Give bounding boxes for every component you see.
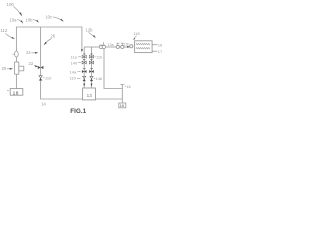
valve row2 left	[82, 60, 86, 64]
valve 22 bowtie on divider pipe	[38, 66, 44, 70]
check valve row4 right vertical bowtie	[90, 76, 93, 78]
flow arrowhead before HX	[127, 46, 130, 48]
svg-text:10b: 10b	[26, 17, 34, 22]
HX stub bottom right	[152, 49, 163, 54]
pump P1 rectangle	[15, 62, 19, 74]
label 24	[26, 50, 38, 55]
svg-text:15: 15	[120, 104, 124, 108]
node tee cap	[120, 85, 124, 89]
svg-text:110: 110	[70, 76, 77, 81]
label 118 above HX	[133, 31, 140, 40]
label 140	[71, 61, 82, 66]
label 20	[2, 66, 14, 71]
HX coil bottom	[136, 48, 150, 49]
wire line to HX	[124, 46, 130, 48]
svg-text:13a: 13a	[108, 43, 114, 47]
valve 11b row1 right	[89, 54, 93, 58]
svg-text:14a: 14a	[70, 69, 77, 74]
svg-text:100: 100	[7, 2, 15, 7]
svg-text:11b: 11b	[96, 54, 103, 59]
box 18	[10, 89, 23, 96]
svg-text:13b: 13b	[123, 43, 129, 47]
svg-text:16: 16	[158, 42, 163, 47]
wire stub to box15	[121, 99, 123, 103]
valve row2 right	[89, 60, 93, 64]
box 13	[83, 88, 96, 100]
label 10a	[10, 17, 24, 23]
heat exchanger box 112	[135, 41, 153, 53]
wire divider pipe	[41, 27, 123, 99]
svg-text:112: 112	[1, 28, 8, 33]
label 14a	[70, 69, 81, 74]
tick before box18	[7, 89, 9, 91]
HX stub top right	[152, 42, 163, 47]
sight glass oval on left pipe	[15, 51, 19, 57]
wire header	[16, 27, 82, 89]
svg-text:12b: 12b	[86, 27, 94, 32]
label 11b	[95, 54, 104, 59]
svg-text:16: 16	[126, 84, 131, 89]
HX coil top	[136, 43, 150, 44]
wire manifold left pipe	[83, 47, 85, 88]
svg-text:22: 22	[29, 61, 34, 66]
label 110 row4	[70, 76, 81, 81]
valve circle 2 with stem	[121, 43, 124, 48]
svg-text:20: 20	[2, 66, 7, 71]
svg-text:24: 24	[26, 50, 31, 55]
valve 14a row3 left	[82, 69, 87, 73]
svg-text:13: 13	[87, 93, 93, 98]
wire manifold right pipe	[91, 47, 93, 88]
pointer dash left of oval	[12, 53, 14, 55]
check valve row4 left vertical bowtie	[83, 76, 86, 78]
compressor circle left	[99, 45, 102, 48]
box 15 bottom right	[119, 103, 126, 108]
valve row3 right	[89, 69, 94, 73]
svg-text:110: 110	[45, 76, 52, 81]
wire vertical right pipe	[104, 47, 122, 99]
svg-text:14: 14	[41, 101, 46, 106]
flow arrowhead into box13 left	[83, 84, 85, 87]
valve circle 1 with stem	[116, 43, 119, 48]
label 10c	[45, 14, 64, 22]
svg-text:118: 118	[133, 31, 140, 36]
label 11a	[71, 54, 82, 59]
svg-text:10a: 10a	[10, 17, 18, 22]
svg-text:10c: 10c	[45, 14, 52, 19]
wire line mid	[119, 46, 121, 48]
wire suction line	[105, 46, 116, 48]
svg-text:14b: 14b	[96, 76, 103, 81]
svg-text:18: 18	[13, 90, 19, 96]
pump side box	[19, 66, 24, 71]
label 110 right of expansion valve	[43, 76, 52, 81]
HX inlet circle	[130, 45, 133, 48]
label 10b	[26, 17, 39, 23]
wire compressor bar	[84, 46, 99, 48]
expansion valve vertical bowtie on divider pipe	[39, 76, 42, 78]
compressor cap	[99, 42, 105, 45]
svg-text:140: 140	[71, 61, 78, 66]
flow arrowhead into box13 right	[91, 84, 93, 87]
svg-text:26: 26	[51, 33, 56, 38]
label 100	[7, 2, 23, 17]
svg-text:FIG.1: FIG.1	[70, 108, 86, 115]
label 22	[29, 61, 39, 67]
label 16 tee	[125, 84, 132, 89]
compressor circle right	[102, 45, 105, 48]
svg-text:17: 17	[158, 49, 163, 54]
label 14b	[94, 76, 103, 81]
valve 11a row1 left	[82, 54, 86, 58]
label 26	[44, 33, 56, 45]
svg-text:11a: 11a	[71, 54, 78, 59]
label 12b	[86, 27, 96, 38]
label 112	[1, 28, 16, 39]
arrowhead down at header right drop	[81, 49, 83, 52]
